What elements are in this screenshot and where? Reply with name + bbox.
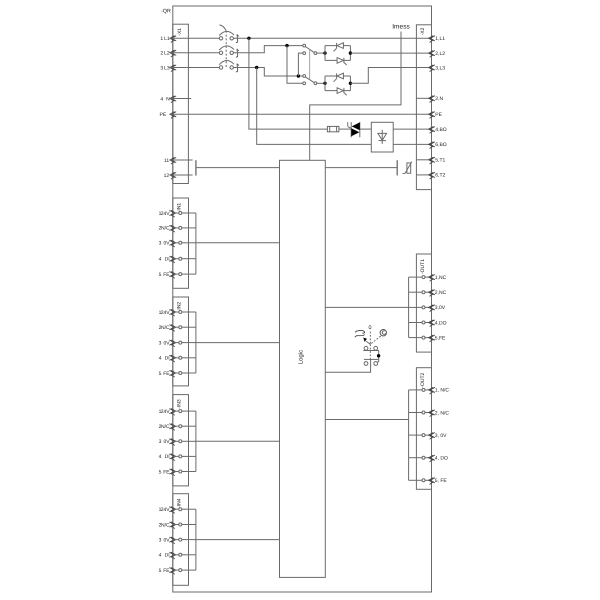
svg-text:2: 2	[160, 51, 163, 57]
svg-text:FE: FE	[163, 272, 170, 278]
wire fork right pair 1	[343, 46, 350, 61]
selector contact lower	[364, 362, 368, 366]
varistor R1	[407, 163, 411, 173]
device outline -QR	[173, 6, 432, 592]
svg-text:5: 5	[159, 568, 162, 574]
svg-text:-X1: -X1	[177, 28, 183, 36]
selector knob link dashed	[371, 336, 381, 344]
wire N stub	[170, 98, 191, 100]
wire L3 tap to surge module	[257, 68, 372, 145]
relay contact K1 lower changeover	[303, 75, 306, 78]
wire bus bracket IN2	[195, 312, 197, 373]
wire pin 11 stub	[170, 159, 193, 161]
svg-text:-IN1: -IN1	[176, 203, 182, 213]
wire L3 input	[170, 67, 219, 69]
svg-text:12: 12	[164, 173, 170, 179]
surge protection module U1	[371, 122, 393, 152]
svg-text:4,DO: 4,DO	[435, 320, 447, 326]
svg-text:24V: 24V	[161, 211, 171, 217]
wire Imess to logic	[310, 32, 401, 161]
breaker handle	[219, 25, 226, 31]
connector IN1	[173, 198, 189, 288]
circuit breaker pole 2	[219, 51, 222, 54]
node thyristor bridge 1 input	[323, 51, 326, 54]
svg-text:0: 0	[369, 325, 372, 331]
svg-text:4: 4	[159, 553, 162, 559]
selector shaft dashed	[369, 332, 371, 345]
svg-text:4: 4	[159, 257, 162, 263]
svg-text:Imess: Imess	[392, 24, 410, 31]
svg-text:4,BO: 4,BO	[435, 127, 447, 133]
connector IN3	[173, 395, 189, 486]
wire fuse to triac	[339, 128, 351, 130]
wire PE rail	[170, 113, 432, 115]
svg-text:0V: 0V	[163, 537, 170, 543]
svg-text:2,L2: 2,L2	[435, 51, 445, 57]
connector IN2	[173, 297, 189, 386]
svg-text:-OUT1: -OUT1	[420, 259, 426, 274]
svg-text:3: 3	[160, 65, 163, 71]
wire trip line right	[325, 167, 397, 169]
wire lower contact common	[317, 82, 325, 84]
svg-text:3,L3: 3,L3	[435, 65, 445, 71]
svg-text:4: 4	[159, 454, 162, 460]
svg-text:6,T2: 6,T2	[435, 173, 445, 179]
wire fork left pair 1	[325, 46, 337, 61]
relay contact K1 upper changeover	[303, 44, 306, 47]
wire L2 output to X2	[350, 52, 431, 54]
svg-text:24V: 24V	[161, 409, 171, 415]
svg-text:5,FE: 5,FE	[435, 335, 446, 341]
svg-text:2,N: 2,N	[435, 96, 443, 102]
svg-text:4, DO: 4, DO	[435, 456, 448, 462]
svg-text:3: 3	[159, 340, 162, 346]
node pair 2 output	[349, 82, 352, 85]
svg-text:0V: 0V	[163, 241, 170, 247]
svg-text:L2: L2	[164, 51, 170, 57]
svg-text:PE: PE	[435, 112, 442, 118]
connector OUT1	[416, 254, 431, 352]
svg-text:-QR: -QR	[161, 8, 171, 14]
svg-text:0V: 0V	[163, 439, 170, 445]
wire L1 to X2	[233, 37, 431, 39]
wire fork left pair 2	[325, 76, 337, 91]
wire trip line left	[197, 167, 280, 169]
svg-text:PE: PE	[160, 112, 167, 118]
circuit breaker pole 1	[219, 37, 222, 40]
wire L3 output to X2	[350, 68, 431, 84]
pin 4,DO of OUT1	[409, 322, 422, 324]
svg-text:FE: FE	[163, 469, 170, 475]
pin 2,NC of OUT1	[409, 291, 422, 293]
wire triac to surge module	[360, 128, 372, 130]
pin 2, N/C of OUT2	[409, 412, 422, 414]
svg-text:5: 5	[159, 371, 162, 377]
svg-text:24V: 24V	[161, 507, 171, 513]
wire logic feed to OUT2	[325, 419, 409, 421]
wire bus bracket OUT2	[408, 390, 410, 480]
wire bus bracket OUT1	[408, 277, 410, 338]
svg-text:3,0V: 3,0V	[435, 305, 446, 311]
svg-text:N/C: N/C	[161, 522, 170, 528]
connector IN4	[173, 494, 189, 586]
wire L2 input	[170, 52, 219, 54]
svg-text:5: 5	[159, 469, 162, 475]
node L2 tap	[285, 44, 288, 47]
wire fork right pair 2	[343, 76, 350, 91]
pin 4,BO of X2	[429, 127, 435, 134]
connector OUT2	[416, 368, 431, 490]
svg-text:3: 3	[159, 241, 162, 247]
pin 5,FE of OUT1	[409, 337, 422, 339]
pin 1, N/C of OUT2	[409, 389, 422, 391]
thyristor V1	[336, 43, 338, 48]
svg-text:DI: DI	[165, 356, 170, 362]
wire bus bracket IN4	[195, 509, 197, 570]
fuse F1	[327, 126, 339, 131]
wire IN3 feed to logic	[196, 440, 280, 442]
node L1 tap	[247, 37, 250, 40]
svg-text:5: 5	[159, 272, 162, 278]
svg-text:-IN4: -IN4	[176, 498, 182, 508]
svg-text:-IN2: -IN2	[176, 302, 182, 312]
pin PE of X2	[429, 112, 435, 119]
circuit breaker pole 3	[219, 66, 222, 69]
wire IN4 feed to logic	[196, 539, 280, 541]
wire pin 12 stub	[170, 174, 193, 176]
svg-text:Logic: Logic	[298, 350, 305, 364]
svg-text:4: 4	[159, 356, 162, 362]
connector X1	[173, 24, 189, 183]
pin 4, DO of OUT2	[409, 457, 422, 459]
thyristor V3	[336, 73, 338, 78]
thyristor V2	[337, 58, 343, 64]
wire bus bracket IN1	[195, 213, 197, 274]
pin 3,L3 of X2	[429, 65, 435, 72]
svg-text:N/C: N/C	[161, 226, 170, 232]
svg-text:DI: DI	[165, 454, 170, 460]
pin 2,N of X2	[416, 97, 431, 99]
pin 3, 0V of OUT2	[409, 434, 422, 436]
svg-text:4: 4	[160, 96, 163, 102]
selector knob	[380, 330, 386, 336]
pin 6,BO of X2	[429, 142, 435, 149]
svg-text:FE: FE	[163, 371, 170, 377]
svg-text:24V: 24V	[161, 310, 171, 316]
node L3 swap junction	[297, 74, 300, 77]
svg-text:2,NC: 2,NC	[435, 290, 447, 296]
svg-text:DI: DI	[165, 553, 170, 559]
svg-text:6,BO: 6,BO	[435, 142, 447, 148]
svg-text:N/C: N/C	[161, 424, 170, 430]
wire upper contact common	[317, 52, 325, 54]
wire logic feed to OUT1	[325, 306, 409, 308]
pin 2,L2 of X2	[429, 51, 435, 58]
pin 5,T1 of X2	[416, 159, 431, 161]
svg-text:L3: L3	[164, 65, 170, 71]
node thyristor bridge 2 input	[323, 82, 326, 85]
wire BO2 to X2	[393, 143, 431, 145]
node selector link	[377, 354, 380, 357]
selector contact upper	[364, 346, 368, 350]
wire L1 tap down to fuse	[249, 38, 328, 129]
wire BO1 to X2	[393, 128, 431, 130]
trip actuator bar left	[195, 160, 197, 175]
svg-text:DI: DI	[165, 257, 170, 263]
svg-text:3, 0V: 3, 0V	[435, 433, 447, 439]
wire swap link from upper contact	[298, 53, 302, 76]
wire contact series link	[377, 351, 379, 363]
pin 3,0V of OUT1	[409, 306, 422, 308]
selector arrow	[363, 338, 367, 343]
triac V5	[350, 122, 352, 137]
node pair 1 output	[349, 51, 352, 54]
pin 6,T2 of X2	[416, 174, 431, 176]
svg-text:N/C: N/C	[161, 325, 170, 331]
pin 1,NC of OUT1	[409, 276, 422, 278]
svg-text:N: N	[166, 96, 170, 102]
wire IN1 feed to logic	[196, 242, 280, 244]
wire IN2 feed to logic	[196, 342, 280, 344]
trip actuator bar right	[396, 160, 398, 175]
wire L3 jog down	[233, 68, 302, 77]
breaker linkage	[225, 31, 227, 68]
connector X2	[416, 25, 431, 190]
svg-text:5,T1: 5,T1	[435, 158, 445, 164]
wire L1 input	[170, 37, 219, 39]
logic unit U2	[280, 160, 326, 577]
svg-text:5, FE: 5, FE	[435, 478, 448, 484]
wire bus bracket IN3	[195, 411, 197, 471]
selector hand actuator	[355, 330, 365, 337]
node L3 tap	[255, 66, 258, 69]
svg-text:1,L1: 1,L1	[435, 36, 445, 42]
svg-text:2, N/C: 2, N/C	[435, 410, 450, 416]
wire selector to logic	[325, 359, 371, 372]
pin 1,L1 of X2	[429, 36, 435, 43]
svg-text:1, N/C: 1, N/C	[435, 388, 450, 394]
svg-text:L1: L1	[164, 36, 170, 42]
wire L2 jog up	[233, 46, 302, 53]
pin 5, FE of OUT2	[409, 479, 422, 481]
svg-text:1,NC: 1,NC	[435, 275, 447, 281]
thyristor V4	[337, 88, 343, 94]
svg-text:-X2: -X2	[420, 27, 426, 35]
svg-text:3: 3	[159, 537, 162, 543]
svg-text:FE: FE	[163, 568, 170, 574]
svg-text:11: 11	[164, 158, 169, 164]
svg-text:0V: 0V	[163, 340, 170, 346]
contact mechanical link	[309, 49, 311, 80]
svg-text:-IN3: -IN3	[176, 399, 182, 409]
svg-text:1: 1	[160, 36, 163, 42]
wire L2 swap branch	[287, 46, 303, 84]
svg-text:3: 3	[159, 439, 162, 445]
svg-text:-OUT2: -OUT2	[420, 372, 426, 387]
